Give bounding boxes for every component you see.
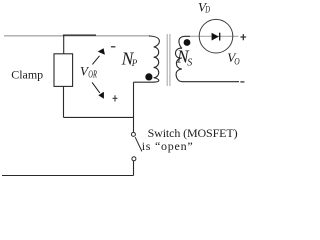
transformer primary dot <box>145 73 152 80</box>
switch Q1 bottom contact <box>132 157 136 161</box>
transformer secondary winding Ns <box>176 36 239 81</box>
switch Q1 top contact <box>131 132 135 136</box>
wire top input rail (gray) <box>4 35 150 37</box>
transformer core lines <box>167 34 170 86</box>
svg-text:Clamp: Clamp <box>11 67 43 81</box>
wire bottom rail <box>2 175 134 177</box>
svg-text:OR: OR <box>88 70 97 81</box>
arrow VOR lower (to plus) <box>92 82 100 93</box>
wire clamp bottom lead <box>63 86 65 117</box>
diode D1 <box>212 33 219 41</box>
wire primary bottom to switch <box>133 82 135 132</box>
resistor Clamp (box) <box>54 54 73 87</box>
label minus output <box>240 81 244 83</box>
svg-text:O: O <box>234 57 240 67</box>
svg-text:S: S <box>187 57 192 68</box>
switch blade <box>135 137 142 151</box>
svg-text:D: D <box>204 5 210 15</box>
transformer secondary dot <box>184 39 191 46</box>
svg-text:P: P <box>131 58 138 68</box>
arrow VOR upper (to minus) <box>92 56 99 65</box>
wire clamp to switch node <box>64 116 134 118</box>
label minus upper <box>111 46 116 48</box>
label plus output <box>240 34 246 40</box>
diode circle VD <box>199 19 233 53</box>
svg-text:Switch (MOSFET): Switch (MOSFET) <box>148 126 238 140</box>
transformer primary winding Np <box>134 36 160 82</box>
label plus lower <box>113 95 118 101</box>
wire secondary top to output plus (gray, through diode circle) <box>190 35 239 37</box>
svg-text:is “open”: is “open” <box>142 139 193 153</box>
wire clamp top lead <box>63 35 65 54</box>
wire black segment over rail from clamp node to Np <box>63 34 96 36</box>
wire switch to bottom rail <box>133 161 135 176</box>
